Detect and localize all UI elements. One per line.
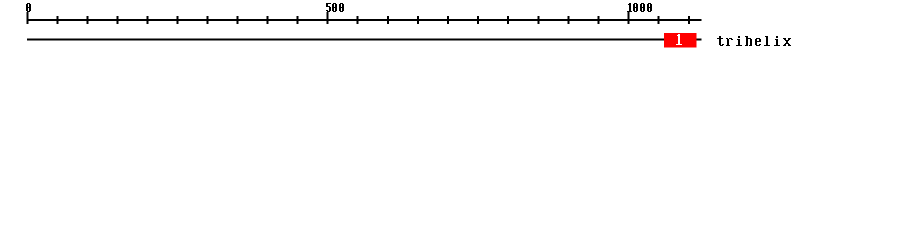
minor tick	[177, 16, 179, 24]
minor tick	[537, 16, 539, 24]
domain number 1 (white)	[676, 34, 682, 45]
minor tick	[447, 16, 449, 24]
minor tick	[688, 16, 690, 24]
minor tick	[207, 16, 209, 24]
minor tick	[147, 16, 149, 24]
protein backbone line	[27, 39, 702, 41]
minor tick	[357, 16, 359, 24]
ruler line	[27, 19, 702, 21]
minor tick	[658, 16, 660, 24]
minor tick	[598, 16, 600, 24]
minor tick	[297, 16, 299, 24]
major tick 1000	[628, 12, 630, 24]
minor tick	[57, 16, 59, 24]
minor tick	[507, 16, 509, 24]
minor tick	[87, 16, 89, 24]
ruler label 0	[26, 3, 31, 12]
minor tick	[567, 16, 569, 24]
major tick 500	[327, 12, 329, 24]
protein domain ruler diagram	[0, 0, 900, 58]
ruler label 500	[326, 3, 344, 12]
major tick 0	[27, 12, 29, 24]
minor tick	[477, 16, 479, 24]
motif name trihelix	[717, 36, 791, 46]
domain box 1 (red)	[664, 33, 697, 48]
minor tick	[117, 16, 119, 24]
minor tick	[387, 16, 389, 24]
ruler label 1000	[627, 3, 652, 12]
minor tick	[237, 16, 239, 24]
minor tick	[267, 16, 269, 24]
minor tick	[417, 16, 419, 24]
